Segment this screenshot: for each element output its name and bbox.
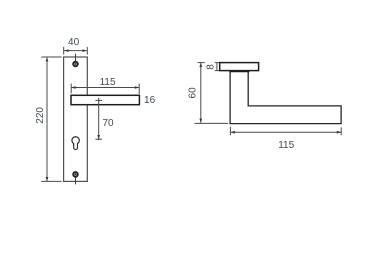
dim 115 side arrow left — [231, 131, 235, 134]
dim 60 arrow down — [199, 119, 202, 123]
handle bar front view — [71, 95, 139, 104]
dim 40 dimension line — [64, 50, 87, 52]
dim 8 bracket line — [216, 63, 218, 71]
euro profile keyhole — [72, 137, 79, 150]
dim 220 arrow up — [46, 57, 49, 61]
dim 220 arrow down — [46, 177, 49, 181]
bottom screw — [72, 171, 79, 178]
dim 115 arrow left — [71, 86, 75, 89]
top screw — [72, 61, 79, 68]
dim 60 bottom extension line — [195, 122, 229, 124]
dim 115 side right extension line — [340, 127, 342, 135]
dim 8 tick top — [215, 62, 220, 64]
dim 70 dimension line — [98, 98, 100, 140]
dim 70 bottom tick — [95, 138, 102, 140]
dim 40 arrow left — [64, 49, 68, 52]
side view: handle neck and arm — [230, 71, 341, 124]
svg-text:16: 16 — [144, 95, 156, 106]
backplate front view — [64, 57, 88, 181]
dim 40 extension line right — [86, 47, 88, 55]
svg-text:8: 8 — [206, 64, 217, 70]
svg-text:115: 115 — [278, 140, 294, 151]
svg-text:115: 115 — [100, 77, 116, 88]
dim 70 top tick — [95, 99, 102, 101]
dim 60 arrow up — [199, 63, 202, 67]
dim 8 tick bottom — [215, 70, 220, 72]
dim 115 arrow right — [135, 86, 139, 89]
dim 220 dimension line — [46, 57, 48, 181]
dim 40 arrow right — [83, 49, 87, 52]
dim 60 dimension line — [200, 63, 202, 123]
neck to plate junction band — [229, 70, 249, 72]
svg-text:40: 40 — [68, 37, 80, 48]
dim 115 right extension line — [138, 84, 140, 94]
svg-text:70: 70 — [102, 118, 114, 129]
dim 115 side arrow right — [337, 131, 341, 134]
dim 70 arrow down — [97, 135, 100, 139]
dim 115 side left extension line — [229, 127, 231, 135]
dim 115 left extension line — [70, 84, 72, 94]
dim 60 top extension line — [198, 62, 205, 64]
svg-text:220: 220 — [35, 107, 46, 124]
dim 220 extension line top — [41, 56, 61, 58]
side view: backplate cross-section — [220, 63, 259, 71]
bottom screw centerline — [75, 174, 77, 184]
dim 40 extension line left — [63, 47, 65, 55]
dim 115 side dimension line — [231, 131, 341, 133]
dim 220 extension line bottom — [41, 180, 61, 182]
dim 115 dimension line — [72, 87, 139, 89]
top screw centerline — [75, 54, 77, 64]
svg-text:60: 60 — [187, 87, 198, 99]
